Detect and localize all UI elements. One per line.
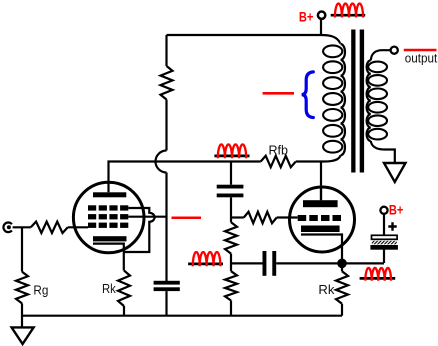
svg-text:Rk: Rk (318, 282, 335, 297)
svg-text:output: output (405, 51, 438, 66)
svg-text:Rk: Rk (102, 281, 116, 296)
svg-text:B+: B+ (299, 10, 314, 25)
svg-text:Rfb: Rfb (269, 143, 289, 158)
svg-text:Rg: Rg (33, 282, 48, 297)
svg-text:B+: B+ (389, 203, 404, 218)
